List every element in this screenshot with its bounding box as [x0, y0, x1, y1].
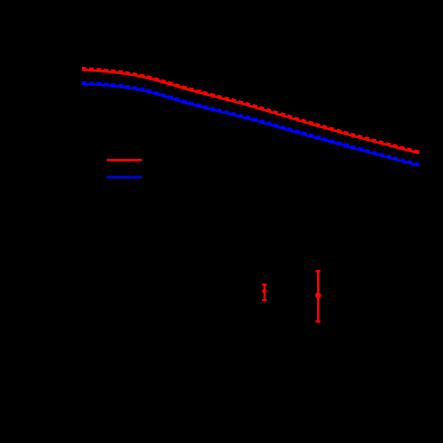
error bar 1 data point marker	[262, 289, 266, 293]
error bar 2 data point marker	[315, 292, 321, 298]
error bar 1 top cap	[262, 283, 267, 285]
error bar 2 vertical line	[317, 271, 319, 321]
error bar 2 bottom cap	[316, 320, 321, 322]
error bar 2 top cap	[316, 270, 321, 272]
error bar 1 bottom cap	[262, 299, 267, 301]
red curve (solid model line)	[82, 70, 419, 154]
legend blue line sample	[107, 176, 142, 178]
error bar 1 vertical line	[263, 284, 265, 300]
red curve (dashed data overlay)	[82, 68, 419, 152]
blue curve (solid model line)	[82, 84, 419, 166]
legend red line sample	[107, 159, 142, 161]
blue curve (dashed data overlay)	[82, 82, 419, 164]
